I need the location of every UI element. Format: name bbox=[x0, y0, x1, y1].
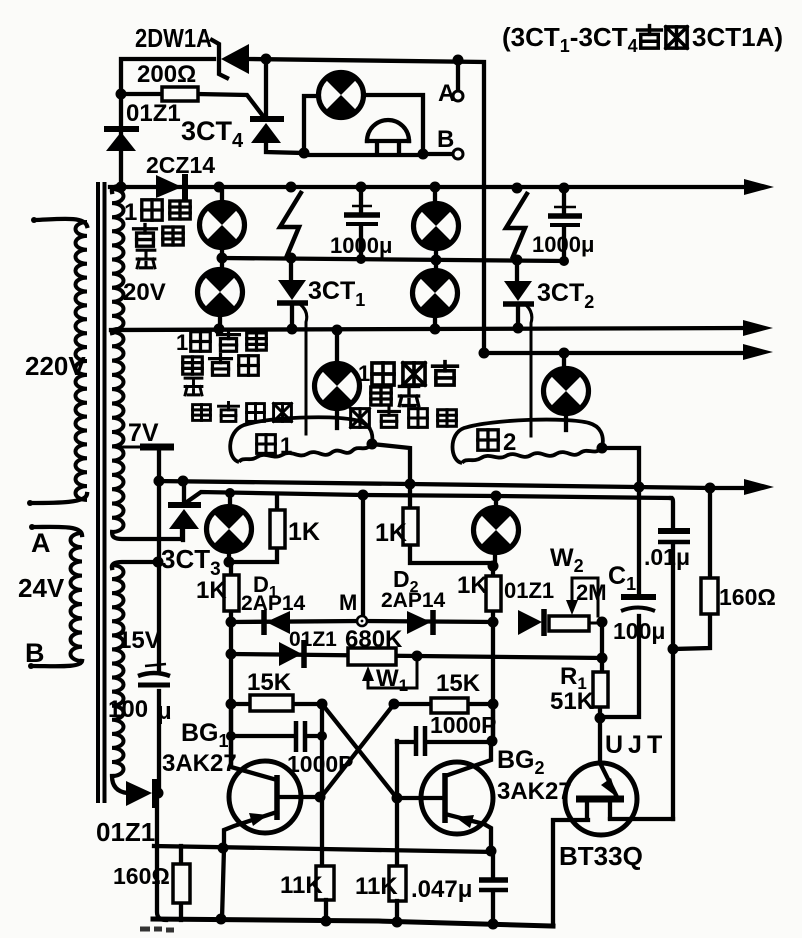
diode D2 2AP14 bbox=[407, 611, 431, 634]
svg-text:2DW1A: 2DW1A bbox=[135, 23, 212, 53]
junction dots bus4 bbox=[154, 476, 716, 494]
resistor 160ohm (right) bbox=[673, 488, 710, 649]
svg-text:1K: 1K bbox=[457, 572, 488, 599]
lamp HL2b bbox=[434, 248, 438, 271]
svg-text:1: 1 bbox=[358, 361, 370, 386]
wire 7V column bbox=[157, 450, 161, 481]
svg-text:2: 2 bbox=[503, 429, 516, 456]
wire cross-coupling slants bbox=[322, 704, 396, 797]
transformer secondary winding S2 7V bbox=[112, 332, 124, 532]
resistor 1K (left column) bbox=[224, 575, 239, 611]
svg-text:3AK27: 3AK27 bbox=[497, 778, 572, 805]
wire 15K row right bbox=[394, 702, 493, 706]
svg-text:7V: 7V bbox=[128, 419, 159, 447]
svg-text:160Ω: 160Ω bbox=[719, 584, 776, 610]
secondary tap hooks bbox=[112, 186, 120, 333]
wire emitter row bbox=[154, 846, 493, 852]
junction dots bus2 bbox=[214, 323, 524, 336]
label tank1 (CJK) bbox=[257, 435, 276, 454]
thyristor 3CT3 bbox=[182, 481, 186, 505]
bus3 arrow bbox=[743, 344, 773, 360]
wire top-left loop bbox=[121, 59, 214, 94]
junction dots mid rows bbox=[153, 557, 679, 804]
wire bottom supply bus bbox=[153, 919, 553, 926]
svg-text:51K: 51K bbox=[550, 688, 595, 715]
wire meter loop bottom bbox=[304, 153, 423, 157]
node M bbox=[357, 616, 367, 626]
lamp HL1b bbox=[220, 247, 224, 270]
wire tank2 to bus4 bbox=[602, 448, 639, 487]
wire BG1 base column bbox=[320, 704, 324, 866]
transformer core bbox=[98, 182, 105, 803]
transistor UJT BT33Q bbox=[565, 763, 637, 835]
transformer 24V winding (A-B) bbox=[71, 533, 83, 661]
svg-text:15V: 15V bbox=[118, 627, 161, 654]
bus2 arrow bbox=[743, 320, 773, 336]
svg-text:1K: 1K bbox=[288, 518, 320, 546]
wire zener to corner bbox=[249, 59, 484, 353]
capacitor 1000P (left) bbox=[231, 734, 322, 738]
capacitor 1000u (tank1) bbox=[359, 187, 363, 258]
resistor 15K (right) bbox=[431, 698, 468, 713]
resistor 200ohm bbox=[121, 94, 263, 116]
junction dots bus3 bbox=[479, 348, 570, 359]
svg-text:24V: 24V bbox=[18, 573, 65, 603]
diode 01Z1 (bottom left) bbox=[126, 781, 152, 806]
bus1 arrow bbox=[744, 179, 774, 195]
wire UJT B1 to bottom bus bbox=[553, 820, 588, 926]
wire 3CT1 gate to tank1 electrode bbox=[301, 305, 307, 434]
zener diode 2DW1A bbox=[212, 40, 227, 78]
wire C1 column bbox=[602, 487, 639, 717]
bus4 arrow bbox=[744, 479, 774, 495]
resistor 1K (mid, from bus4) bbox=[410, 484, 493, 566]
7V tap lead bbox=[118, 446, 141, 449]
resistor 160ohm (left, emitter) bbox=[179, 846, 183, 920]
lamp HL4 (tank2 leak) bbox=[562, 353, 566, 370]
svg-text:3AK27: 3AK27 bbox=[162, 750, 237, 777]
svg-text:20V: 20V bbox=[123, 279, 166, 306]
thyristor 3CT1 bbox=[278, 280, 306, 300]
diode D1 2AP14 bbox=[261, 610, 267, 635]
transformer primary winding 220V bbox=[76, 222, 88, 500]
lamp HL7 bbox=[494, 496, 498, 509]
wire gate row (below bus4) bbox=[184, 492, 671, 504]
svg-text:15K: 15K bbox=[436, 670, 481, 697]
svg-text:3CT1A): 3CT1A) bbox=[692, 22, 783, 52]
lamp HL3 (tank1 leak indicator) bbox=[335, 330, 339, 365]
svg-text:100: 100 bbox=[108, 696, 148, 723]
transformer secondary winding S1 20V bbox=[112, 189, 124, 330]
potentiometer W2 2M bbox=[549, 616, 589, 631]
svg-text:1K: 1K bbox=[375, 519, 407, 547]
svg-text:680K: 680K bbox=[345, 626, 403, 653]
svg-text:01Z1: 01Z1 bbox=[126, 100, 181, 127]
junction dots gate row bbox=[225, 488, 502, 502]
24V winding top lead A bbox=[32, 527, 82, 535]
bell/buzzer HA bbox=[367, 120, 409, 141]
svg-text:μ: μ bbox=[157, 698, 172, 725]
resistor 11K (BG2) bbox=[389, 866, 406, 901]
wire bus2 bbox=[111, 328, 747, 330]
terminal A bbox=[456, 60, 460, 90]
potentiometer W1 680K bbox=[348, 648, 396, 665]
terminal B bbox=[423, 152, 451, 156]
svg-text:1000μ: 1000μ bbox=[532, 232, 594, 257]
svg-text:2CZ14: 2CZ14 bbox=[146, 152, 215, 178]
wire 680K row bbox=[231, 654, 602, 658]
wire BG2 base column bbox=[395, 741, 399, 866]
wire node M drop bbox=[361, 495, 365, 621]
svg-text:2AP14: 2AP14 bbox=[241, 592, 306, 615]
transformer secondary winding S3 15V bbox=[112, 565, 124, 776]
svg-text:220V: 220V bbox=[25, 351, 86, 381]
diode 2CZ14 bbox=[156, 175, 182, 198]
wire BG1 emitter to bottom bus bbox=[222, 848, 224, 919]
svg-text:1: 1 bbox=[124, 199, 137, 226]
svg-text:1000P: 1000P bbox=[287, 751, 354, 777]
tank 1 (oil tank outline) bbox=[230, 417, 372, 462]
svg-text:160Ω: 160Ω bbox=[113, 863, 170, 889]
svg-text:01Z1: 01Z1 bbox=[289, 628, 337, 651]
transistor BG2 3AK27 bbox=[421, 762, 493, 834]
svg-text:B: B bbox=[437, 126, 454, 153]
wire lamp junction row (top section) bbox=[222, 258, 564, 261]
junction dots emitter row and bottom bus bbox=[216, 843, 499, 930]
wire 3CT2 gate to tank2 electrode bbox=[527, 306, 532, 436]
thyristor 3CT2 bbox=[504, 281, 532, 301]
wire M-row bbox=[231, 621, 493, 622]
primary bottom lead bbox=[30, 494, 87, 503]
svg-text:200Ω: 200Ω bbox=[137, 61, 196, 88]
diode 01Z1 (M row, right) bbox=[518, 610, 542, 635]
capacitor .047u bbox=[491, 852, 495, 924]
capacitor 100u (left) bbox=[145, 664, 166, 666]
resistor 11K (BG1) bbox=[316, 866, 334, 900]
wire W2 to R1 bbox=[600, 622, 604, 658]
S2 bottom lead to 3CT3 anode bbox=[112, 530, 182, 539]
wire right column through rows bbox=[491, 622, 495, 741]
wire meter loop left bbox=[304, 96, 317, 153]
svg-text:11K: 11K bbox=[355, 873, 398, 900]
capacitor C1 100u bbox=[621, 594, 656, 600]
svg-text:(3CT1-3CT4: (3CT1-3CT4 bbox=[502, 22, 638, 56]
svg-text:11K: 11K bbox=[280, 872, 323, 899]
label tank2 (CJK) bbox=[478, 430, 498, 450]
wire bus3 (meter line) bbox=[484, 351, 747, 355]
S3 bottom lead to 01Z1 bbox=[112, 776, 127, 793]
24V winding bottom lead B bbox=[31, 661, 82, 666]
wire BG2 collector column bbox=[491, 704, 495, 741]
svg-text:01Z1: 01Z1 bbox=[96, 817, 155, 847]
wire 3CT2 anode bbox=[515, 259, 519, 281]
lamp HL5 (meter) bbox=[319, 73, 364, 118]
junction dots bus1 bbox=[116, 182, 570, 194]
S3 top lead bbox=[112, 562, 159, 568]
svg-text:M: M bbox=[339, 590, 357, 615]
resistor 15K (left) bbox=[250, 695, 293, 711]
wire left column (7V/100u) bbox=[157, 481, 166, 920]
capacitor 1000P (right) bbox=[397, 740, 492, 744]
junction dots top loop bbox=[116, 54, 464, 160]
diode 01Z1 (top left) bbox=[104, 126, 139, 132]
lamp HL6 bbox=[228, 493, 232, 508]
lamp HL1a (tank1 fill indicator) bbox=[220, 187, 224, 203]
junction dots lamp row bbox=[217, 253, 570, 267]
junction dots tanks bbox=[367, 439, 608, 454]
resistor 1K (right column) bbox=[491, 566, 495, 622]
resistor 1K (lamp HL6 shunt) bbox=[231, 494, 277, 562]
wire 15K row left bbox=[231, 702, 322, 706]
transistor BG1 3AK27 bbox=[229, 761, 301, 833]
resistor R1 51K bbox=[600, 658, 602, 718]
svg-text:2AP14: 2AP14 bbox=[381, 589, 446, 612]
wire bus1 (20V rail, top) bbox=[110, 185, 748, 189]
wire .01u column bbox=[671, 498, 673, 819]
thyristor 3CT4 bbox=[264, 59, 268, 117]
svg-text:15K: 15K bbox=[247, 669, 292, 696]
svg-text:UJT: UJT bbox=[605, 731, 667, 759]
svg-text:.047μ: .047μ bbox=[411, 876, 472, 903]
svg-text:1000P: 1000P bbox=[430, 712, 497, 738]
label leak electrode (CJK) bbox=[351, 409, 370, 428]
wire bus4 bbox=[156, 481, 748, 488]
diode 01Z1 (680K row) bbox=[279, 642, 302, 666]
tank 2 (oil tank outline) bbox=[453, 420, 603, 463]
wire 01Z1 column down to bus1 bbox=[119, 94, 123, 187]
capacitor .01u bbox=[658, 528, 690, 534]
electrode symbol (tank1 fill electrode) bbox=[280, 191, 302, 258]
primary top lead bbox=[35, 219, 87, 226]
wire tank1 to bus4 bbox=[372, 444, 410, 484]
wire M column vertical bbox=[229, 562, 233, 766]
electrode symbol (tank2) bbox=[506, 192, 528, 259]
capacitor 1000u (tank2) bbox=[562, 188, 566, 259]
svg-text:1: 1 bbox=[176, 330, 188, 355]
svg-text:1: 1 bbox=[280, 433, 292, 458]
svg-text:1000μ: 1000μ bbox=[330, 233, 392, 258]
svg-text:A: A bbox=[31, 528, 51, 558]
svg-text:BT33Q: BT33Q bbox=[559, 841, 643, 871]
svg-text:100μ: 100μ bbox=[613, 618, 665, 644]
svg-text:2M: 2M bbox=[576, 580, 607, 605]
scan smudge bottom left bbox=[140, 929, 174, 930]
wire UJT B2 bbox=[610, 817, 673, 821]
svg-text:01Z1: 01Z1 bbox=[504, 578, 554, 603]
svg-text:.01μ: .01μ bbox=[644, 544, 690, 570]
wire meter loop right bbox=[364, 95, 423, 154]
label fill electrode (CJK) bbox=[193, 405, 211, 421]
svg-text:1K: 1K bbox=[196, 577, 227, 604]
svg-text:B: B bbox=[25, 638, 45, 668]
wire 3CT1 anode bbox=[289, 258, 293, 280]
lamp HL2a (tank1 level normal) bbox=[433, 187, 437, 204]
